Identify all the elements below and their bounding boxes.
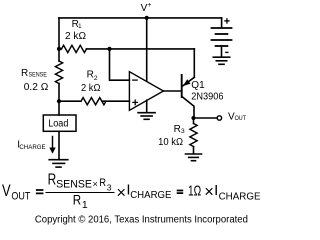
svg-text:×: × — [204, 183, 214, 201]
svg-text:V: V — [2, 181, 11, 200]
svg-text:3: 3 — [107, 183, 112, 193]
svg-text:CHARGE: CHARGE — [19, 144, 46, 151]
svg-text:OUT: OUT — [235, 115, 246, 122]
svg-text:1: 1 — [78, 23, 82, 30]
svg-text:×: × — [116, 184, 126, 202]
svg-text:1: 1 — [82, 199, 88, 211]
svg-text:0.2 Ω: 0.2 Ω — [24, 82, 49, 93]
svg-text:1Ω: 1Ω — [188, 183, 201, 200]
svg-text:Load: Load — [48, 118, 68, 129]
svg-text:R: R — [73, 193, 81, 209]
svg-text:R: R — [48, 172, 57, 189]
svg-text:R: R — [99, 177, 106, 189]
svg-text:2N3906: 2N3906 — [191, 92, 224, 103]
svg-text:2: 2 — [94, 75, 98, 82]
svg-text:SENSE: SENSE — [56, 178, 92, 190]
svg-text:R: R — [87, 69, 94, 80]
svg-text:R: R — [21, 68, 28, 79]
svg-text:Q1: Q1 — [191, 80, 205, 91]
svg-text:SENSE: SENSE — [29, 71, 48, 78]
svg-text:×: × — [93, 179, 98, 189]
svg-text:Copyright © 2016, Texas Instru: Copyright © 2016, Texas Instruments Inco… — [35, 214, 248, 225]
svg-text:2 kΩ: 2 kΩ — [65, 31, 87, 42]
svg-text:+: + — [147, 2, 151, 9]
svg-text:CHARGE: CHARGE — [130, 190, 171, 201]
svg-text:2 kΩ: 2 kΩ — [81, 83, 101, 94]
svg-text:3: 3 — [181, 128, 185, 135]
svg-text:CHARGE: CHARGE — [219, 191, 261, 203]
svg-text:OUT: OUT — [11, 190, 30, 202]
svg-text:R: R — [174, 124, 181, 135]
svg-text:10 kΩ: 10 kΩ — [158, 137, 183, 148]
